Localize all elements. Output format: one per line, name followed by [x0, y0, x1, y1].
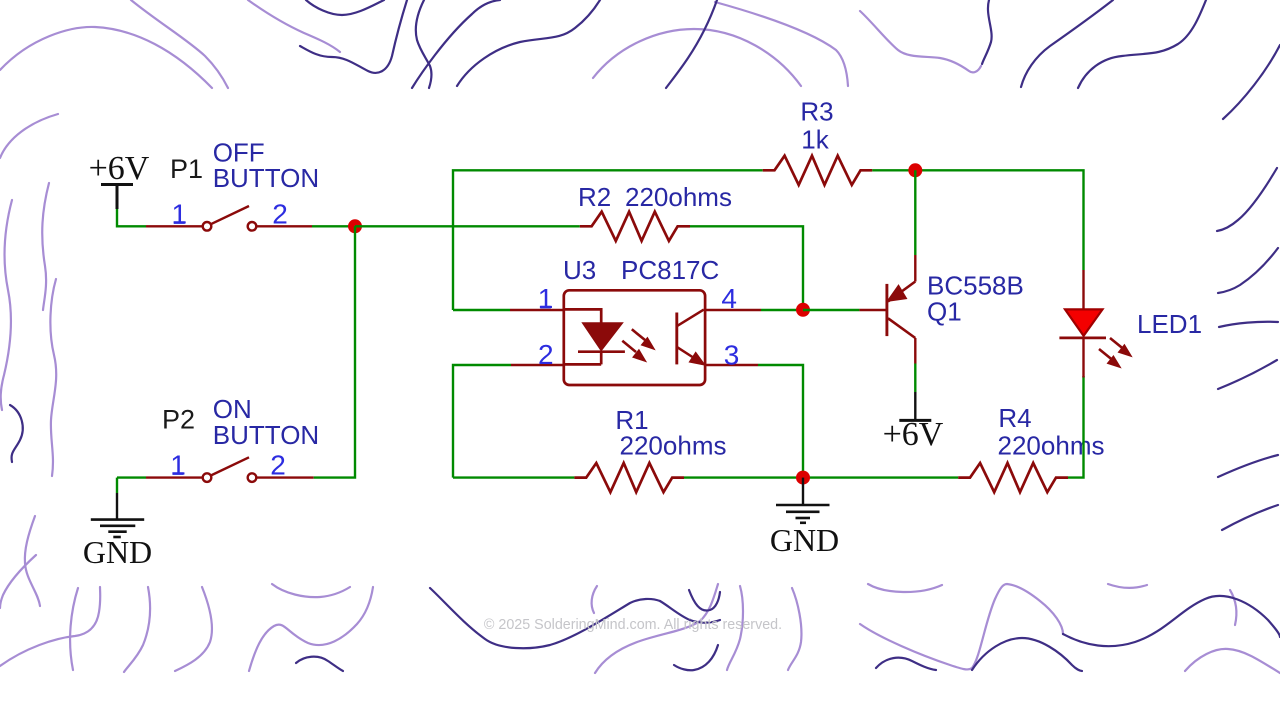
- svg-text:U3: U3: [563, 255, 596, 285]
- svg-text:2: 2: [270, 450, 286, 481]
- wire junction C to Q1 base: [803, 309, 859, 311]
- svg-text:GND: GND: [770, 522, 839, 558]
- svg-text:GND: GND: [83, 534, 152, 570]
- svg-text:P1: P1: [170, 154, 203, 184]
- svg-text:Q1: Q1: [927, 297, 962, 327]
- opto U3 phototransistor: [677, 310, 705, 365]
- wire pin 3 of U3 down to ground rail: [705, 364, 758, 366]
- svg-text:1k: 1k: [801, 125, 829, 155]
- svg-text:R2: R2: [578, 182, 611, 212]
- wire P2 row: [117, 476, 146, 478]
- switch P1: [146, 206, 312, 231]
- svg-text:R4: R4: [998, 403, 1031, 433]
- wire pin 1 of U3: [453, 309, 510, 311]
- svg-text:LED1: LED1: [1137, 309, 1202, 339]
- wire R1 to junction D: [684, 476, 958, 478]
- ground GND (right): [776, 478, 830, 523]
- svg-text:220ohms: 220ohms: [998, 431, 1105, 461]
- svg-text:220ohms: 220ohms: [625, 182, 732, 212]
- wire Q1 emitter down: [914, 364, 916, 393]
- wire P1 to junction A: [312, 225, 355, 227]
- svg-text:BUTTON: BUTTON: [213, 420, 319, 450]
- junction C (pin4/base node): [796, 303, 810, 317]
- opto U3 light arrows: [622, 329, 654, 361]
- svg-text:+6V: +6V: [89, 150, 150, 187]
- ground GND (left): [91, 478, 144, 537]
- resistor R4: [958, 463, 1068, 492]
- wire pin 4 of U3 to junction C: [705, 309, 761, 311]
- wire top loop (left vertical + top run to R3): [453, 170, 763, 310]
- svg-text:1: 1: [170, 450, 186, 481]
- svg-text:220ohms: 220ohms: [620, 431, 727, 461]
- junction D (ground node): [796, 471, 810, 485]
- svg-text:3: 3: [724, 340, 740, 371]
- switch P2: [146, 457, 314, 482]
- resistor R2: [580, 212, 690, 241]
- power flag +6V (under Q1): [899, 392, 931, 420]
- wire Q1 collector up to junction B: [914, 170, 916, 255]
- svg-text:2: 2: [538, 339, 554, 370]
- svg-text:1: 1: [538, 283, 554, 314]
- svg-text:PC817C: PC817C: [621, 255, 719, 285]
- resistor R1: [574, 463, 684, 492]
- wire R2 to pin4 node: [690, 226, 803, 303]
- power flag +6V (top left): [101, 185, 133, 210]
- svg-text:2: 2: [272, 199, 288, 230]
- wire pin 2 of U3: [453, 365, 511, 478]
- junction B (collector node): [908, 163, 922, 177]
- svg-text:BUTTON: BUTTON: [213, 163, 319, 193]
- transistor Q1 (BC558B PNP): [887, 255, 915, 364]
- wire P2 to vertical bus: [314, 226, 355, 477]
- svg-text:+6V: +6V: [883, 416, 944, 453]
- wire junction A to R2: [355, 225, 580, 227]
- opto-isolator U3 body: [564, 290, 705, 385]
- wire R3 to LED column: [872, 170, 1083, 270]
- svg-text:1: 1: [172, 199, 188, 230]
- LED LED1: [1059, 270, 1106, 378]
- wire R1 rail (pin2 loop to ground junction): [453, 476, 574, 478]
- svg-text:4: 4: [721, 283, 737, 314]
- opto U3 internal LED: [564, 309, 625, 364]
- wire R4 to LED column: [1068, 376, 1084, 478]
- LED1 light arrows: [1099, 338, 1131, 367]
- wire +6V to P1 corner: [117, 209, 146, 226]
- svg-text:© 2025 SolderingMind.com. All: © 2025 SolderingMind.com. All rights res…: [484, 617, 782, 633]
- svg-text:P2: P2: [162, 405, 195, 435]
- junction A: [348, 219, 362, 233]
- svg-text:R3: R3: [800, 97, 833, 127]
- resistor R3: [763, 156, 873, 185]
